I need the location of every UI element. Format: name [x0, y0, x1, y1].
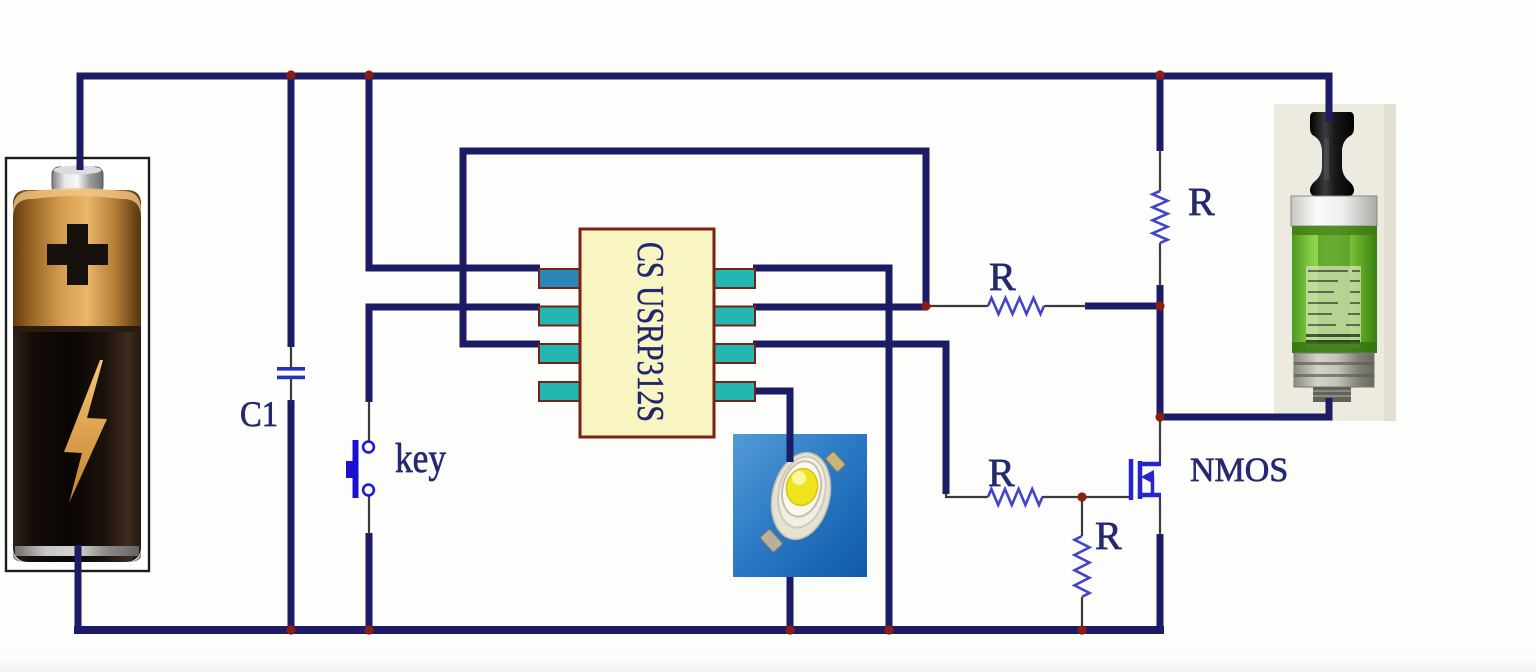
svg-text:NMOS: NMOS: [1190, 452, 1288, 489]
svg-text:key: key: [395, 436, 446, 482]
svg-text:R: R: [989, 254, 1016, 299]
svg-text:R: R: [988, 450, 1015, 495]
svg-text:R: R: [1188, 179, 1215, 224]
svg-text:R: R: [1095, 513, 1122, 558]
svg-text:CS USRP312S: CS USRP312S: [629, 242, 671, 422]
svg-text:C1: C1: [240, 394, 278, 434]
